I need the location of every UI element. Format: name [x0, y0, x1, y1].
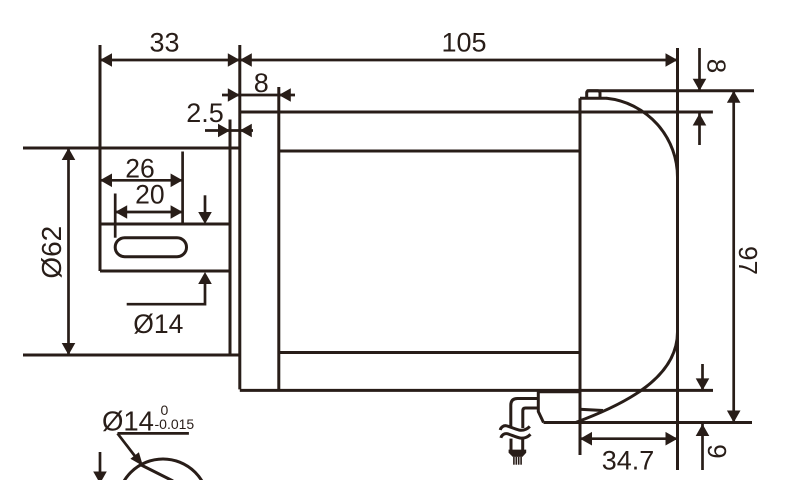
dimension line 8 right upper	[698, 48, 701, 91]
extension line 20 left	[114, 194, 117, 238]
arrowhead 20 right	[171, 205, 183, 219]
break squiggle 2	[501, 434, 531, 439]
cover top corner arc	[607, 98, 678, 177]
arrowhead 20 left	[115, 205, 127, 219]
arrowhead 9 up	[696, 424, 710, 436]
svg-text:8: 8	[702, 59, 732, 73]
dimension line 2.5	[205, 129, 253, 132]
cover right edge / extension for 105 and 34.7	[676, 48, 679, 470]
dimension line 20	[115, 211, 182, 214]
svg-text:2.5: 2.5	[186, 98, 224, 128]
detail circle (shaft section)	[118, 459, 209, 480]
arrowhead 2.5 left	[218, 124, 230, 138]
detail leader underline	[118, 432, 189, 435]
cover bottom corner arc	[576, 332, 678, 423]
arrowhead 8 right up	[693, 114, 707, 126]
wire below break left	[510, 439, 513, 450]
terminal bump on cover	[587, 91, 600, 99]
svg-text:20: 20	[135, 179, 164, 209]
arrowhead 8 left-dim right	[279, 88, 291, 102]
dimension line 34.7	[580, 437, 678, 440]
svg-text:-0.015: -0.015	[155, 416, 195, 432]
arrowhead 26 left	[100, 174, 112, 188]
extension line 26 right	[181, 152, 184, 225]
wire boot outer line	[511, 399, 539, 427]
svg-text:Ø14: Ø14	[133, 309, 183, 339]
arrowhead 105 left	[240, 53, 252, 67]
arrowhead Ø14 down	[198, 212, 212, 224]
arrowhead Ø14 up	[198, 272, 212, 284]
bottom box top edge	[538, 390, 580, 393]
flange front face / extension for 33-105	[238, 45, 241, 389]
arrowhead 34.7 right	[666, 432, 678, 446]
dimension line 97	[732, 91, 735, 423]
dimension line 33	[100, 59, 240, 62]
body bottom line / extension for right 9	[240, 389, 713, 392]
arrowhead 33 left	[100, 53, 112, 67]
wire crimp ferrule	[509, 450, 527, 457]
shaft bottom line	[100, 270, 230, 273]
arrowhead 97 top	[727, 91, 741, 103]
arrowhead 105 right	[666, 53, 678, 67]
wire strands	[513, 457, 515, 465]
dimension line 9 upper	[701, 364, 704, 390]
detail leader diagonal	[118, 433, 137, 457]
arrowhead 34.7 left	[580, 432, 592, 446]
top extension line at y=90.7	[587, 89, 754, 92]
arrowhead detail leader	[130, 452, 143, 466]
dimension line 26	[100, 179, 183, 182]
dimension line 8 right lower	[698, 114, 701, 146]
bottom box bottom edge / extension for 9 and 97	[544, 421, 753, 424]
leader Ø14 lower	[127, 281, 205, 304]
arrowhead detail flat down	[93, 472, 107, 480]
shaft top line	[100, 223, 230, 226]
svg-text:105: 105	[441, 27, 486, 57]
cover inner bottom short line	[580, 409, 604, 410]
boss bottom line / Ø62 bottom extension	[23, 354, 240, 357]
detail flat depth arrow line	[99, 452, 102, 472]
svg-text:9: 9	[702, 444, 732, 458]
dimension line 105	[240, 59, 678, 62]
break squiggle 1	[500, 426, 530, 431]
body inner bottom line	[279, 351, 580, 354]
dimension line Ø62	[67, 148, 70, 355]
svg-text:Ø14: Ø14	[102, 405, 154, 436]
svg-text:97: 97	[733, 246, 763, 275]
svg-text:34.7: 34.7	[602, 446, 655, 476]
arrowhead 9 down	[696, 378, 710, 390]
body top line / extension for right 8	[240, 111, 713, 114]
wire boot inner line	[523, 408, 539, 428]
arrowhead 8 right down	[693, 79, 707, 91]
arrowhead 8 left-dim left	[228, 88, 240, 102]
arrowhead 97 bottom	[727, 411, 741, 423]
shaft left face / extension for 33 and 26	[99, 45, 102, 271]
rear cover front face / extension for 34.7	[579, 98, 582, 455]
arrowhead 33 right	[228, 53, 240, 67]
boss top line / Ø62 top extension	[23, 147, 240, 150]
rear cover top edge	[580, 97, 607, 100]
detail flat chord line	[139, 464, 173, 480]
dimension line 9 lower	[701, 423, 704, 471]
dimension line 8 left	[222, 94, 295, 97]
arrowhead 26 right	[171, 174, 183, 188]
svg-text:8: 8	[254, 68, 269, 98]
wire below break right	[521, 439, 524, 450]
arrowhead Ø62 top	[62, 148, 76, 160]
bottom box left edge and chamfer	[538, 390, 543, 422]
boss front face	[229, 120, 232, 356]
shaft flat slot (stadium)	[115, 238, 186, 257]
arrowhead 2.5 right	[240, 124, 252, 138]
arrowhead Ø62 bottom	[62, 343, 76, 355]
leader Ø14 upper	[204, 195, 207, 214]
flange rear face / extension for 8	[277, 87, 280, 389]
svg-text:Ø62: Ø62	[36, 226, 67, 279]
svg-text:33: 33	[149, 27, 179, 57]
body inner top line	[279, 150, 580, 153]
